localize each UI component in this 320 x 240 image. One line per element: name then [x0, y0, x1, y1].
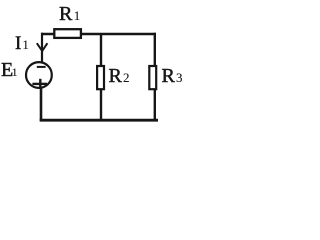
current arrow I1 head [37, 43, 48, 51]
wire left vertical from top corner down to source E1 [41, 33, 43, 62]
wire bottom rail [40, 119, 158, 122]
label R2 [109, 65, 130, 87]
source minus sign [37, 66, 46, 68]
resistor R3 [149, 66, 156, 89]
wire from source bottom to bottom rail [40, 87, 43, 121]
label R3 [162, 65, 183, 87]
wire top rail from node A to R3 corner [41, 33, 156, 36]
svg-text:I1: I1 [15, 33, 29, 54]
label E1 [1, 59, 18, 81]
source plus sign [32, 79, 47, 89]
resistor R2 [97, 66, 104, 89]
wire right vertical from top rail corner down to R3 [154, 33, 156, 66]
label I1 [15, 33, 29, 54]
wire from R2 bottom to bottom rail [100, 90, 102, 121]
wire from R3 bottom to bottom rail [154, 90, 156, 121]
voltage source E1 circle [26, 62, 52, 88]
label R1 [59, 3, 80, 25]
resistor R1 [54, 29, 81, 38]
node A junction wire down to R2 [100, 33, 102, 66]
